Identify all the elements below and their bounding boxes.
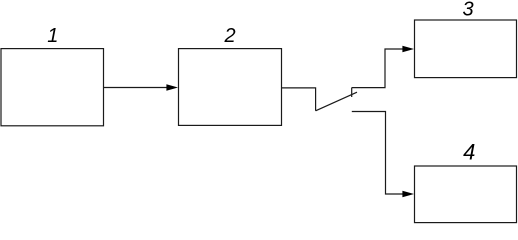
svg-text:4: 4 [463, 140, 475, 165]
svg-text:1: 1 [47, 25, 58, 47]
block 1 [1, 49, 104, 126]
switch upper contact stub [351, 88, 353, 97]
block 2 [179, 49, 282, 126]
block 4 [415, 166, 517, 223]
block 3 [415, 20, 517, 78]
wire from lower contact to block 4 [352, 112, 404, 195]
wire from block 1 to block 2 [104, 87, 168, 89]
arrowhead into block 2 [166, 84, 178, 91]
wire from block 2 to switch pole [282, 88, 316, 111]
wire from upper contact to block 3 [352, 49, 404, 88]
svg-text:2: 2 [223, 25, 235, 47]
switch blade [316, 92, 357, 111]
arrowhead into block 4 [402, 191, 414, 198]
arrowhead into block 3 [402, 46, 414, 53]
svg-text:3: 3 [462, 0, 473, 20]
